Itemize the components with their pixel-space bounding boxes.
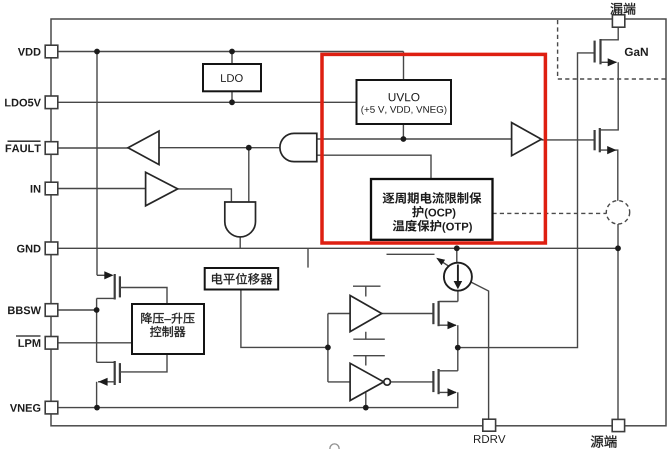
wire UVLO top feed from VDD (403, 52, 405, 81)
pin LDO5V (45, 96, 58, 109)
inverter U8 low-side driver (350, 363, 384, 400)
wire Q3 source to mid node (457, 325, 459, 371)
buffer U5 IN input (points right) (146, 172, 178, 206)
transistor Q4 channel bar (438, 369, 440, 394)
red highlight box around UVLO and OCP/OTP (322, 54, 545, 243)
label pin VDD (18, 48, 41, 56)
transistor Q4 source stub with arrow (439, 391, 456, 393)
wire level shifter output down and right (241, 290, 328, 348)
wire GaN top source down to GaN lower drain (600, 62, 618, 130)
AND gate U6 (points down) (225, 202, 256, 237)
wire stub below GND line (307, 248, 309, 267)
wire GND net (58, 247, 618, 249)
wire GaN lower source down to sense element (600, 150, 618, 201)
block level shifter (205, 268, 279, 290)
label 漏端 drain terminal (611, 3, 636, 15)
pin 漏端 (drain terminal) (612, 15, 624, 27)
pin VNEG (45, 401, 58, 414)
transistor Q6 gate plate (119, 363, 121, 383)
label block OCP line1 逐周期电流限制保 (383, 192, 482, 204)
pin GND (45, 242, 58, 255)
current source I1 (adjustable, OCP controlled) (444, 263, 472, 291)
wire buffer U4 output to GaN lower gate (541, 139, 594, 141)
block buck-boost controller (132, 304, 204, 354)
label block UVLO (389, 93, 420, 101)
label 源端 source terminal (591, 435, 617, 447)
capacitor C1 bootstrap top plate over U7 (353, 286, 381, 296)
wire current source to RDRV rail (470, 282, 488, 420)
wire Q5 gate to controller top (120, 288, 167, 305)
buffer U7 high-side driver (350, 296, 382, 332)
pin VDD (45, 45, 58, 58)
buffer U2 FAULT output (points left) (128, 131, 159, 165)
block OCP/OTP protection (371, 179, 493, 240)
transistor Q6 source stub with arrow (98, 381, 115, 383)
wire VDD rail down to buck-boost high-side (96, 52, 98, 276)
transistor Q1 source stub with arrow (601, 61, 617, 63)
transistor Q2 source arrow (607, 146, 616, 154)
label GaN device (625, 48, 648, 56)
dashed OTP link OCP block to sense element (492, 212, 606, 214)
wire LDO output stub (231, 91, 233, 102)
label pin LPM (active low) (19, 339, 41, 347)
label block 降压-升压控制器 buck-boost controller line1 (141, 313, 194, 324)
block LDO (203, 64, 261, 91)
wire AND U3 output to FAULT buffer (159, 147, 280, 149)
wire buffer U7 output to Q3 gate (382, 313, 434, 315)
transistor Q5 gate plate (119, 276, 121, 297)
wire inverter U8 output to Q4 gate (391, 381, 434, 383)
transistor Q6 buck-boost low side: drain stub (97, 361, 115, 363)
wire switch-node rail BBSW (96, 298, 98, 362)
label pin LDO5V (5, 99, 41, 107)
label pin VNEG (10, 404, 40, 412)
transistor Q2 GaN lower: gate plate (593, 130, 595, 150)
label block 电平位移器 level shifter (212, 273, 272, 285)
pin BBSW (45, 304, 58, 317)
transistor Q4 gate plate (432, 371, 434, 392)
wire to buffer U7 input (328, 313, 350, 315)
wire UVLO output down to gate line (402, 124, 404, 139)
wire AND U3 upper input / UVLO-OK net to driver buffer U4 (317, 138, 512, 140)
transistor Q5 source stub (97, 297, 115, 299)
label pin RDRV (474, 435, 506, 443)
transistor Q3 source stub with arrow (439, 324, 456, 326)
transistor Q5 buck-boost high side: drain stub with arrow (97, 274, 112, 276)
wire sense element to GND node and 源端 pin (617, 224, 619, 419)
label pin BBSW (8, 306, 41, 314)
buffer U4 GaN gate driver (512, 123, 542, 156)
pin 源端 (source terminal) (612, 419, 624, 431)
label UVLO monitored rails (361, 106, 446, 115)
wire gate AND U6 output stub (239, 237, 241, 248)
capacitor C2 plate above U8 (353, 356, 385, 366)
dashed GaN die boundary (558, 20, 666, 79)
wire Q4 source to VNEG corner (457, 392, 459, 407)
wire to inverter U8 input (328, 381, 350, 383)
wire GaN top drain to 漏端 pin (601, 27, 619, 40)
wire driver input vertical bus (327, 314, 329, 382)
watermark arc bottom center (330, 444, 339, 449)
wire LDO input stub (231, 52, 233, 65)
transistor Q3 gate plate (432, 303, 434, 324)
wire IN input line (58, 188, 146, 190)
pin LPM (45, 337, 58, 350)
transistor Q3 channel bar (438, 301, 440, 326)
arrowhead adjustable source (436, 258, 445, 265)
transistor Q6 channel bar (114, 361, 116, 385)
wire OCP control line to adjustable source (387, 253, 435, 255)
sense element D1 (dashed circle) (606, 201, 629, 224)
wire AND U3 lower input from OCP block (317, 155, 431, 179)
transistor Q1 channel bar (599, 39, 601, 64)
wire LDO5V net (58, 101, 357, 103)
wire adjust arrow shaft (439, 260, 450, 267)
wire VNEG net (58, 392, 458, 407)
transistor Q4 drain stub (439, 370, 458, 372)
capacitor C2 plate below U7 (353, 332, 385, 339)
AND gate U3 (mirrored, output on left) (280, 133, 317, 161)
wire VDD net (58, 51, 404, 53)
pin RDRV (483, 419, 496, 431)
label pin IN (31, 185, 41, 193)
wire current source top stub from GND node (456, 248, 458, 263)
label pin GND (17, 245, 41, 253)
wire enable tap down to gate AND U6 right input (248, 148, 250, 202)
wire inverter U8 negative rail to VNEG (365, 392, 367, 408)
label block 降压-升压控制器 line2 (150, 326, 185, 337)
wire current source output to Q3 drain (457, 291, 459, 302)
wire Q6 source rail to VNEG (96, 382, 98, 408)
label block OCP line3 温度保护(OTP) (393, 220, 472, 233)
label block OCP line2 护(OCP) (412, 206, 455, 219)
pin IN (45, 182, 58, 195)
wire gate-driver mid node to GaN top gate (458, 53, 595, 348)
block UVLO (357, 80, 452, 124)
junction dots (94, 49, 100, 55)
transistor Q5 channel bar (114, 274, 116, 300)
wire BBSW to switch node (58, 309, 97, 311)
wire Q6 gate to controller bottom (120, 354, 167, 372)
pin FAULT (45, 142, 58, 155)
transistor Q2 channel bar (599, 128, 601, 152)
label pin FAULT (active low) (6, 145, 41, 153)
transistor Q3 drain stub (439, 301, 458, 303)
wire IN buffer output to gate AND U6 left input (178, 189, 232, 202)
wire LPM to controller (58, 342, 132, 344)
label block LDO (221, 74, 243, 82)
wire FAULT output line (58, 147, 128, 149)
transistor Q1 GaN top: gate plate (593, 41, 595, 63)
